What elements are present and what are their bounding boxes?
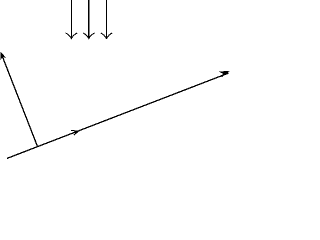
incline long line xyxy=(7,73,229,158)
axis line up-left xyxy=(2,56,37,147)
down arrow 2 shaft xyxy=(88,0,90,38)
incline mid chevron arrowhead xyxy=(71,130,78,135)
axis arrowhead (filled dart) xyxy=(1,53,5,59)
down arrow 1 shaft xyxy=(70,0,72,38)
down arrow 2 head xyxy=(83,33,95,39)
down arrow 3 head xyxy=(101,33,113,39)
down arrow 3 shaft xyxy=(106,0,108,38)
down arrow 1 head xyxy=(66,33,78,39)
incline end arrowhead (filled dart) xyxy=(220,71,229,76)
